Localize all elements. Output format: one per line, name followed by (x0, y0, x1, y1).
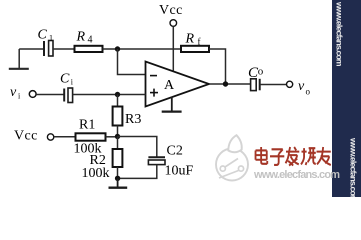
glyph 子 (270, 149, 284, 165)
node junction (R1/R2/R3/C2) (115, 134, 120, 139)
ground (bottom) (109, 178, 128, 187)
node output junction (223, 81, 228, 86)
wire junction to R2 (117, 137, 119, 150)
wire C2 bottom to junction (118, 165, 157, 179)
svg-text:4: 4 (88, 34, 93, 45)
ground (top-left) (9, 49, 29, 69)
svg-text:1: 1 (49, 34, 53, 43)
sidebar (navy) (332, 0, 361, 197)
glyph 发 (286, 147, 300, 166)
resistor R1 (76, 133, 106, 140)
svg-text:10uF: 10uF (165, 164, 194, 179)
wire junction to C2 (top) (118, 137, 157, 158)
svg-text:R3: R3 (125, 112, 141, 127)
wire Ci to noninverting input (73, 94, 146, 96)
wire junction down to inverting input (118, 49, 146, 75)
wire C1 to R4 (53, 48, 75, 50)
wire R2 to bottom junction (117, 167, 119, 178)
capacitor C2 (148, 157, 165, 164)
svg-text:R: R (76, 30, 86, 45)
watermark logo (elecfans circle) (216, 135, 248, 180)
svg-text:C2: C2 (167, 144, 183, 159)
svg-text:www.elecfans.com: www.elecfans.com (349, 137, 359, 197)
node bottom junction (115, 176, 120, 181)
glyph 电 (256, 147, 268, 164)
svg-text:Vcc: Vcc (159, 3, 183, 18)
wire ground to C1 (19, 48, 44, 50)
wire R4 to Rf (top feedback rail) (103, 48, 182, 50)
wire junction to R3 (117, 95, 119, 107)
capacitor Ci (input) (64, 88, 72, 103)
svg-text:100k: 100k (82, 166, 110, 181)
node junction (R4 / inverting input) (115, 46, 120, 51)
ground (op-amp negative supply) (162, 97, 182, 112)
resistor Rf (181, 46, 209, 52)
node junction (vi / R3) (115, 92, 120, 97)
svg-text:o: o (306, 87, 311, 97)
svg-text:C: C (60, 71, 70, 86)
svg-text:v: v (10, 85, 17, 100)
svg-text:R: R (185, 32, 195, 47)
svg-text:o: o (258, 66, 264, 78)
svg-text:R1: R1 (79, 117, 95, 132)
wire Co to vo terminal (260, 84, 287, 86)
svg-text:www.elecfans.com: www.elecfans.com (253, 169, 340, 181)
wire Rf to output node (209, 49, 226, 84)
wire R3 to R1/R2 junction (117, 126, 119, 137)
svg-text:f: f (198, 37, 201, 47)
resistor R4 (75, 46, 103, 52)
capacitor Co (251, 79, 260, 91)
wire Vcc to op-amp (172, 26, 174, 70)
glyph 友 (317, 147, 331, 165)
resistor R3 (113, 107, 123, 126)
watermark text 电子发烧友 (red) (256, 147, 331, 166)
op-amp U (A) (146, 62, 210, 107)
wire vi to Ci (36, 94, 64, 96)
resistor R2 (113, 149, 123, 167)
svg-text:www.elecfans.com: www.elecfans.com (335, 1, 345, 67)
capacitor C1 (top) (44, 41, 53, 57)
svg-text:v: v (298, 79, 305, 94)
plus sign (150, 89, 158, 97)
wire output (209, 83, 251, 85)
wire Vcc to R1 (54, 136, 76, 138)
svg-text:Vcc: Vcc (14, 129, 38, 144)
minus sign (150, 75, 157, 77)
glyph 烧 (301, 148, 316, 165)
svg-text:C: C (38, 28, 48, 43)
terminal vo (287, 81, 293, 87)
wire R1 to junction (106, 136, 118, 138)
svg-text:A: A (164, 78, 175, 93)
